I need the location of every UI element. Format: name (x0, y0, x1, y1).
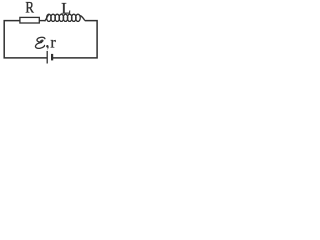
svg-text:r: r (50, 35, 56, 52)
svg-text:R: R (25, 0, 34, 17)
svg-text:L: L (61, 1, 71, 18)
